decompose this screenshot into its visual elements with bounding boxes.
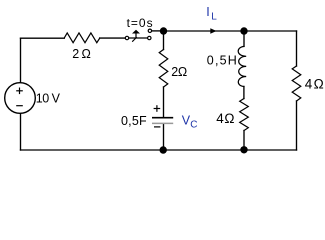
- svg-text:4Ω: 4Ω: [216, 111, 234, 126]
- voltage source plus sign: [16, 88, 23, 95]
- svg-text:L: L: [211, 12, 217, 23]
- wire capacitor bottom plate to bottom rail: [163, 124, 165, 150]
- svg-text:2Ω: 2Ω: [171, 65, 187, 79]
- switch S1 contact left: [125, 36, 128, 39]
- wire inductor to R3: [243, 87, 245, 99]
- wire node A down to R2: [163, 31, 165, 50]
- svg-text:10 V: 10 V: [36, 91, 61, 105]
- svg-text:0,5F: 0,5F: [121, 114, 147, 128]
- wire between switch contacts: [129, 37, 148, 39]
- wire R2 to capacitor top plate: [163, 87, 165, 117]
- resistor R2 2ohm middle: [159, 50, 168, 88]
- node C junction dot (capacitor bottom): [160, 146, 167, 153]
- wire node B down to inductor: [243, 31, 245, 46]
- wire top-left to R1: [21, 37, 65, 39]
- wire R1 to switch: [100, 37, 126, 39]
- wire R3 to bottom rail: [243, 131, 245, 151]
- svg-text:2Ω: 2Ω: [72, 47, 91, 61]
- inductor L1 0.5H coil: [238, 46, 246, 86]
- wire left rail lower: [20, 113, 22, 150]
- wire left rail upper: [20, 38, 22, 82]
- capacitor plus sign: [154, 105, 161, 112]
- wire top rail node B to corner: [244, 30, 297, 32]
- node A junction dot: [160, 27, 167, 34]
- capacitor C1 top plate: [152, 117, 173, 119]
- resistor R4 4ohm right: [292, 66, 301, 101]
- wire top rail node A to node B: [164, 30, 245, 32]
- wire switch upper contact to node A: [152, 30, 164, 32]
- current arrow IL on top rail: [210, 28, 216, 34]
- voltage source V1 circle: [5, 83, 36, 114]
- svg-text:I: I: [206, 5, 209, 19]
- switch S1 contact upper: [148, 29, 151, 32]
- svg-text:4Ω: 4Ω: [305, 76, 324, 91]
- wire bottom rail: [21, 149, 297, 151]
- capacitor minus sign: [154, 126, 160, 128]
- voltage source minus sign: [16, 105, 23, 107]
- switch S1 actuator arrow: [132, 30, 140, 42]
- svg-text:t=0s: t=0s: [127, 16, 153, 30]
- capacitor C1 bottom plate grey: [152, 122, 173, 124]
- node D junction dot (R3 bottom): [240, 146, 247, 153]
- svg-text:0,5H: 0,5H: [207, 54, 237, 68]
- node B junction dot: [240, 27, 247, 34]
- switch S1 contact right lower: [148, 36, 151, 39]
- svg-text:C: C: [190, 120, 197, 131]
- resistor R3 4ohm middle: [240, 99, 249, 131]
- resistor R1 2ohm horizontal: [64, 33, 100, 43]
- wire right rail lower: [296, 101, 298, 150]
- wire right rail upper: [296, 31, 298, 66]
